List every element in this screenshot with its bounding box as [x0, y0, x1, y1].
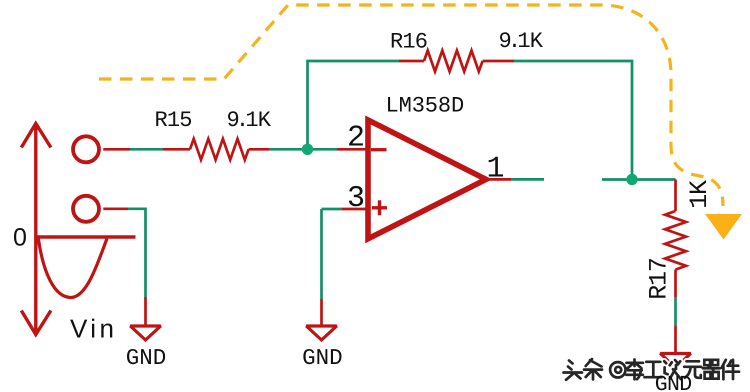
- wire to node A teal: [269, 148, 337, 151]
- wire source bottom teal + down: [128, 209, 146, 297]
- resistor R15: [190, 139, 249, 160]
- annotation dashed feedback highlight path: [99, 5, 723, 206]
- op-amp U1 triangle: [368, 120, 486, 239]
- resistor R17 (vertical): [665, 211, 686, 270]
- svg-text:9.1K: 9.1K: [227, 108, 272, 133]
- ground GND2 symbol: [306, 326, 336, 340]
- ground GND3 symbol: [660, 354, 690, 368]
- wire input top teal: [130, 148, 163, 151]
- node 0 axis horizontal line: [36, 235, 136, 238]
- Vin negative half sine wave: [38, 238, 107, 298]
- wire pin1 out red: [486, 178, 511, 181]
- wire pin3 stub red: [342, 208, 368, 211]
- wire into R17 red: [674, 180, 677, 212]
- wire R17 down red: [674, 270, 677, 297]
- annotation arrow head (orange): [705, 214, 742, 240]
- wire feedback riser left teal: [308, 61, 400, 149]
- char 件: [722, 360, 739, 379]
- wire pin1 out teal: [511, 178, 544, 181]
- svg-text:R16: R16: [390, 30, 427, 55]
- wire pin3 teal: [322, 208, 343, 211]
- svg-text:2: 2: [347, 122, 365, 156]
- wire pin3 down teal: [320, 209, 323, 299]
- junction output node dot: [626, 174, 637, 185]
- wire R17 down teal: [674, 297, 677, 326]
- svg-text:3: 3: [347, 182, 365, 216]
- terminal circle input top: [73, 136, 99, 162]
- char 李: [626, 360, 643, 380]
- wire source bottom red: [103, 207, 128, 210]
- junction node A dot: [302, 144, 313, 155]
- wire into R16 red: [399, 60, 424, 63]
- wire input top red: [103, 148, 130, 151]
- svg-text:1K: 1K: [685, 180, 714, 209]
- terminal circle input bottom: [73, 196, 99, 222]
- char 元: [684, 361, 701, 378]
- svg-text:R17: R17: [644, 258, 673, 300]
- svg-text:GND: GND: [126, 345, 167, 371]
- svg-text:0: 0: [13, 224, 27, 252]
- wire feedback riser right teal: [514, 61, 632, 180]
- wire into R15 red: [163, 148, 190, 151]
- wire to gnd1 red: [144, 297, 147, 326]
- char 器: [703, 360, 720, 379]
- char 条: [584, 359, 602, 379]
- svg-text:LM358D: LM358D: [386, 94, 465, 119]
- watermark 头条 @李工谈元器件 (vector approximation): [564, 359, 740, 380]
- svg-text:Vin: Vin: [70, 314, 117, 344]
- char 头: [564, 361, 583, 380]
- char @ outer: [610, 362, 625, 377]
- wire R15 to junction red: [249, 148, 269, 151]
- svg-text:9.1K: 9.1K: [499, 29, 544, 54]
- resistor R16: [424, 51, 483, 72]
- wire R17 to gnd red: [674, 326, 677, 354]
- svg-text:R15: R15: [155, 108, 192, 133]
- wire pin2 stub red: [337, 148, 368, 151]
- svg-text:1: 1: [487, 153, 505, 187]
- wire output node teal: [602, 178, 676, 181]
- char @ inner: [615, 367, 621, 373]
- char 工: [645, 362, 662, 377]
- wire R16 out red: [483, 60, 514, 63]
- svg-text:GND: GND: [655, 373, 692, 392]
- Vin source axis vertical double arrow: [21, 124, 51, 335]
- char 谈: [664, 360, 681, 379]
- wire pin3 down red: [320, 299, 323, 326]
- op-amp minus sign: [371, 148, 387, 151]
- ground GND1 symbol: [130, 326, 160, 340]
- op-amp plus sign: [372, 200, 387, 215]
- svg-text:GND: GND: [302, 345, 343, 371]
